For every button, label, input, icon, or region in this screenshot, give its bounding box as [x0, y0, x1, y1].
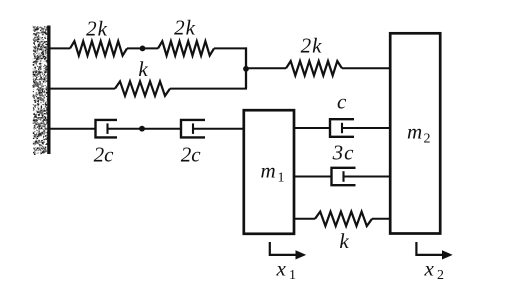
svg-text:x: x [424, 256, 435, 280]
wire [170, 88, 247, 90]
svg-text:x: x [276, 256, 287, 280]
node x2 (displacement arrow) [416, 242, 452, 283]
svg-text:2: 2 [437, 268, 444, 283]
svg-text:3c: 3c [332, 141, 355, 165]
wire (piston rod) [342, 127, 391, 129]
svg-text:1: 1 [289, 268, 296, 283]
svg-text:2k: 2k [174, 16, 196, 40]
svg-text:k: k [339, 229, 349, 253]
wire (vertical junction) [245, 47, 247, 88]
svg-text:k: k [138, 57, 148, 81]
damper c [330, 90, 354, 137]
wire [246, 67, 286, 69]
damper 2c (right) [181, 120, 205, 167]
svg-text:2k: 2k [86, 17, 108, 41]
svg-text:2: 2 [424, 131, 431, 146]
spring k (bottom, between masses) [315, 212, 372, 253]
wire (piston rod) [193, 128, 245, 130]
wire [127, 47, 158, 49]
svg-text:2k: 2k [301, 34, 323, 58]
wire (piston rod) [108, 128, 182, 130]
spring 2k (coupling to m2) [286, 34, 342, 76]
spring k (left, parallel) [115, 57, 170, 96]
wire [50, 88, 115, 90]
svg-text:2c: 2c [181, 143, 202, 167]
svg-text:c: c [337, 90, 347, 114]
wire [372, 218, 391, 220]
node (dot between series springs) [140, 46, 146, 52]
spring 2k (top-middle) [158, 16, 214, 56]
wire [294, 218, 315, 220]
svg-text:1: 1 [278, 170, 285, 185]
wall (hatched support) [33, 26, 51, 156]
mass m1 [244, 110, 294, 234]
wire [214, 47, 247, 49]
wire [342, 67, 391, 69]
node x1 (displacement arrow) [270, 242, 306, 283]
svg-text:m: m [261, 158, 276, 182]
node (junction dot) [243, 66, 249, 72]
damper 3c [332, 141, 356, 186]
spring 2k (top-left) [70, 17, 127, 56]
mass m2 [390, 33, 440, 233]
wire [50, 128, 96, 130]
wire (piston rod) [344, 176, 392, 178]
wire [294, 176, 332, 178]
svg-text:m: m [407, 120, 422, 144]
node (dot between dampers) [139, 126, 145, 132]
wire [294, 127, 330, 129]
wire [50, 47, 70, 49]
svg-text:2c: 2c [94, 143, 115, 167]
damper 2c (left) [94, 120, 117, 167]
